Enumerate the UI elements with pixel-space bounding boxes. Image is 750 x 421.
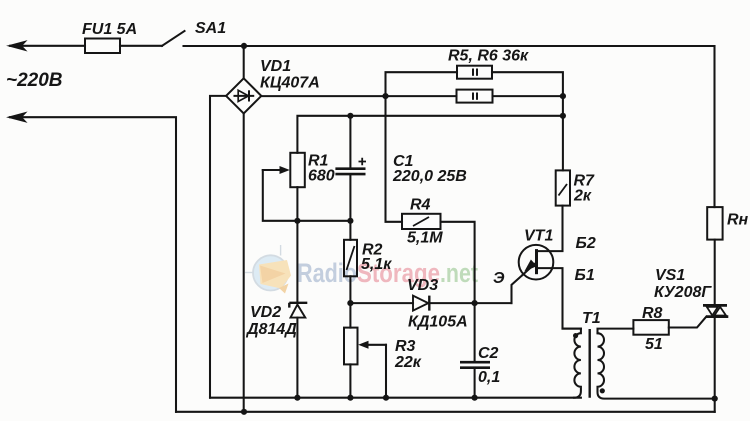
svg-text:~220В: ~220В — [6, 70, 63, 91]
wire: R3 leads — [349, 303, 351, 328]
junction dot triac cathode / T1 secondary — [712, 396, 718, 402]
junction dot VD2 bottom — [294, 395, 300, 401]
svg-text:Д814Д: Д814Д — [245, 321, 297, 338]
bridge diode symbol — [235, 90, 254, 101]
capacitor C2 — [460, 362, 490, 368]
svg-text:22к: 22к — [394, 354, 422, 371]
load resistor Rн — [707, 207, 722, 240]
junction dot at bridge top feed — [241, 43, 247, 49]
transistor VT1 (unijunction) circle — [519, 245, 554, 280]
svg-text:680: 680 — [308, 168, 335, 185]
junction dot C1 top — [347, 113, 353, 119]
wire: base 2 lead — [537, 206, 563, 252]
transformer T1 secondary winding — [598, 329, 715, 399]
VT1 emitter arrow — [522, 260, 537, 276]
svg-text:0,1: 0,1 — [478, 369, 500, 386]
wire: VD2 bottom to ground row — [296, 318, 298, 398]
wire: lower AC line to left vertical — [10, 117, 176, 412]
svg-text:VD3: VD3 — [407, 277, 438, 294]
watermark logo RadioStorage — [245, 245, 291, 294]
wire: R5 row — [386, 72, 458, 96]
svg-text:Radio: Radio — [297, 258, 357, 288]
svg-text:R5, R6 36к: R5, R6 36к — [448, 48, 529, 65]
wire: fuse to switch — [120, 45, 162, 47]
zener diode VD2 — [289, 303, 307, 318]
T1 secondary polarity dot — [600, 388, 605, 393]
wire: R2 leads — [349, 221, 351, 240]
node L2 input arrow (lower AC line) — [8, 112, 26, 122]
svg-text:FU1 5A: FU1 5A — [82, 21, 137, 38]
svg-text:КУ208Г: КУ208Г — [654, 284, 712, 301]
junction dot VD3 row right / C2 top — [472, 300, 478, 306]
wire: down to bridge top vertex — [243, 46, 245, 79]
variable resistor R3 — [344, 328, 358, 365]
junction dot R3 bottom — [347, 395, 353, 401]
R3 tap arrow — [358, 341, 386, 349]
resistor R7 — [556, 170, 570, 205]
fuse FU1 — [85, 39, 120, 54]
resistor R2 — [344, 240, 357, 276]
wire: R1 tap down to R1 bottom row — [263, 170, 351, 221]
junction dot bridge bottom on AC row — [241, 409, 247, 415]
junction dot R5R6 right — [560, 93, 566, 99]
svg-text:5,1к: 5,1к — [361, 256, 392, 273]
triac VS1 — [703, 305, 728, 316]
transformer T1 primary winding — [563, 329, 581, 398]
diode VD3 — [413, 296, 429, 311]
wire: R1 bottom to VD2 — [296, 187, 298, 303]
junction dot C1 bottom — [347, 218, 353, 224]
svg-text:SA1: SA1 — [195, 20, 226, 37]
svg-text:Б1: Б1 — [575, 267, 595, 284]
node L1 input arrow (top AC line) — [8, 41, 26, 51]
svg-text:R4: R4 — [410, 197, 431, 214]
wire: bottom AC row — [176, 411, 715, 413]
wire: bridge left vertex to left vertical rail (DC minus) — [210, 96, 226, 398]
svg-text:220,0 25В: 220,0 25В — [392, 168, 467, 185]
svg-text:2к: 2к — [573, 188, 592, 205]
svg-text:КЦ407А: КЦ407А — [260, 75, 320, 92]
watermark text RadioStorage.net — [297, 258, 478, 288]
wire: R5 right to right vertical — [492, 72, 563, 96]
wire: R3 tap down to ground row — [385, 345, 387, 398]
wire: DC minus ground row — [210, 397, 581, 399]
wire: top rail corner down to Rн — [713, 46, 715, 207]
svg-text:КД105А: КД105А — [408, 314, 468, 331]
wire: C2 leads — [474, 303, 476, 362]
wire: Rн bottom to triac top — [714, 240, 716, 306]
capacitor C1 — [335, 158, 366, 174]
svg-text:51: 51 — [645, 336, 663, 353]
wire: top AC rail from switch to right edge corner — [184, 45, 715, 47]
switch SA1 blade — [162, 31, 185, 46]
wire: R4 right down to VD3 row — [441, 222, 475, 303]
variable resistor R1 — [290, 153, 305, 187]
svg-text:5,1М: 5,1М — [407, 230, 443, 247]
svg-text:VT1: VT1 — [524, 228, 553, 245]
wire: right vertical down to R7 — [562, 96, 564, 170]
wire: base 1 lead — [537, 268, 581, 329]
resistor R4 — [402, 214, 441, 229]
junction dot C2 bottom — [472, 395, 478, 401]
junction dot right vertical / C1 rail — [560, 113, 566, 119]
wire: emitter lead — [512, 275, 523, 303]
wire: bridge bottom vertex down to bottom AC row — [243, 114, 245, 412]
wire: R6 right to right vertical — [493, 95, 563, 97]
junction dot VD3 row left — [347, 300, 353, 306]
svg-text:T1: T1 — [582, 310, 601, 327]
svg-text:Б2: Б2 — [576, 235, 596, 252]
wire: arrow to fuse — [10, 45, 85, 47]
resistor R5 — [457, 66, 492, 79]
junction dot R3 tap bottom — [383, 395, 389, 401]
resistor R8 — [633, 320, 668, 335]
T1 core — [589, 329, 591, 398]
wire: C1 leads — [349, 116, 351, 169]
resistor R6 — [457, 90, 493, 103]
bridge rectifier VD1 diamond — [226, 78, 261, 113]
R1 tap arrow — [263, 166, 290, 174]
VT1 base bar — [535, 249, 538, 274]
wire: triac bottom to bottom rows — [714, 317, 716, 412]
wire: bridge right vertex (DC plus) to R6 row — [261, 95, 456, 97]
junction dot R1 bottom — [294, 218, 300, 224]
svg-text:VS1: VS1 — [655, 267, 685, 284]
wire: R8 to triac gate — [669, 317, 707, 328]
svg-text:C2: C2 — [478, 345, 499, 362]
svg-text:.net: .net — [440, 258, 478, 288]
wire: VD3 row — [350, 302, 413, 304]
svg-text:VD1: VD1 — [260, 58, 291, 75]
wire: R4 feed vertical from R5R6 left junction — [386, 96, 403, 222]
svg-text:VD2: VD2 — [250, 304, 281, 321]
svg-text:R8: R8 — [642, 305, 663, 322]
svg-text:R3: R3 — [395, 338, 416, 355]
T1 primary polarity dot — [573, 333, 578, 338]
junction dot R5R6 left — [382, 93, 388, 99]
svg-text:Rн: Rн — [727, 212, 749, 229]
wire: C1 top rail row — [297, 116, 563, 153]
svg-text:Э: Э — [493, 270, 505, 287]
